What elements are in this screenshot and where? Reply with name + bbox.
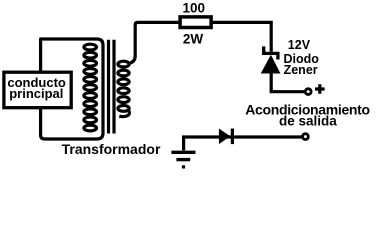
diode D2 anode triangle: [219, 129, 230, 145]
svg-text:2W: 2W: [183, 32, 204, 47]
zener diode D1 anode triangle: [261, 55, 281, 74]
wire: transformer secondary top lead to resistor: [129, 22, 179, 63]
transformer T1 core line 2: [112, 40, 115, 134]
ground symbol bar 2: [176, 158, 190, 161]
svg-text:12V: 12V: [288, 38, 311, 52]
svg-text:Transformador: Transformador: [62, 141, 161, 157]
transformer T1 secondary coil loops: [118, 61, 129, 111]
wire: resistor right lead to zener branch corner: [212, 22, 271, 51]
ground symbol bar 1: [171, 151, 195, 154]
svg-text:100: 100: [183, 0, 206, 15]
output terminal node (-) circle: [303, 134, 309, 140]
ground symbol bar 3: [182, 165, 185, 168]
svg-text:de salida: de salida: [279, 114, 337, 129]
plus sign: [315, 84, 325, 94]
svg-text:Zener: Zener: [284, 63, 318, 77]
wire: transformer secondary bottom tail: [119, 110, 129, 116]
diode D2 cathode bar: [231, 129, 234, 145]
wire: zener anode to output terminal: [271, 73, 305, 92]
resistor R1 body: [180, 17, 211, 28]
wire: ground stub and bottom rail to terminal: [184, 137, 302, 150]
zener diode D1 cathode Z-bar: [264, 46, 278, 59]
output terminal node (+) circle: [305, 89, 311, 95]
transformer T1 primary coil loops: [84, 44, 97, 131]
transformer T1 core line 1: [107, 40, 110, 134]
conducto principal box: [4, 72, 71, 108]
wire: primary circuit loop (AC feed through conducto principal box and transformer primary): [41, 39, 103, 139]
svg-text:principal: principal: [9, 86, 63, 101]
